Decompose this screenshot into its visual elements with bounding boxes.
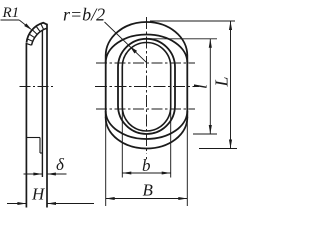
B arrow right-pointing <box>178 197 187 200</box>
dimension delta <box>24 155 67 176</box>
H arrow left-pointing <box>47 202 56 205</box>
R1 leader arrowhead <box>24 23 32 30</box>
dimension L <box>150 21 237 149</box>
right view: front view of oval washer <box>106 22 188 149</box>
l top extension line <box>148 38 217 40</box>
left view top rim band outer arc R1 <box>27 23 48 43</box>
r=b/2 arrowhead on hole arc <box>130 46 137 53</box>
centerlines of right view <box>95 17 199 159</box>
outline right side line <box>186 56 188 119</box>
B left extension line <box>105 117 107 206</box>
B right extension line <box>186 117 188 206</box>
outline left side line <box>105 56 107 119</box>
b dimension line <box>122 172 170 174</box>
dimension l (inner) <box>148 39 217 134</box>
svg-text:B: B <box>143 181 154 200</box>
H dimension line <box>7 203 94 205</box>
hole edge oval, concave face <box>118 39 175 134</box>
dimension B <box>106 117 188 206</box>
top arc centers line <box>96 62 195 64</box>
delta arrow right-pointing <box>33 172 42 175</box>
delta dimension line left part <box>24 173 43 175</box>
svg-text:r=b/2: r=b/2 <box>63 4 105 24</box>
R1 leader line <box>1 20 32 29</box>
left view horizontal centerline <box>20 86 55 88</box>
b left extension line <box>121 108 123 178</box>
vertical centerline end dot <box>146 157 148 159</box>
left view inner (concave) surface line <box>41 30 43 177</box>
left view hole far edge step line <box>26 137 40 139</box>
hole edge oval, convex face <box>122 43 170 132</box>
L dimension line <box>230 21 232 149</box>
l bottom extension line <box>193 133 217 135</box>
B dimension line <box>106 198 188 200</box>
middle horizontal centerline <box>95 86 199 88</box>
l dimension line <box>209 39 211 134</box>
label r=b/2 with leader <box>63 4 146 62</box>
L top extension line <box>150 20 235 22</box>
hatching of section band <box>28 24 44 41</box>
l arrow up <box>209 39 212 48</box>
bottom arc centers line <box>96 108 195 110</box>
L arrow up <box>229 21 232 30</box>
svg-text:l: l <box>191 84 211 89</box>
r=b/2 leader diagonal to arc center <box>105 22 147 62</box>
svg-text:L: L <box>212 76 232 87</box>
b arrow left-pointing <box>122 171 131 174</box>
dimension b <box>122 108 170 178</box>
delta dimension line right part <box>47 173 67 175</box>
outer edge top arc (convex face) <box>106 22 188 56</box>
left view band bottom cap <box>26 44 31 46</box>
l arrow down <box>209 125 212 134</box>
svg-text:H: H <box>31 185 46 204</box>
left view hole slot near line <box>39 138 41 154</box>
concave face bottom arc <box>106 111 188 139</box>
concave face top arc <box>106 35 188 63</box>
left view outer left surface line <box>25 43 27 208</box>
left view right surface line <box>46 24 48 208</box>
L bottom extension line <box>199 148 237 150</box>
svg-text:b: b <box>142 156 151 175</box>
delta arrow left-pointing <box>47 172 56 175</box>
left view top rim band inner arc <box>32 29 48 46</box>
left view hole slot bottom cap <box>40 152 42 154</box>
B arrow left-pointing <box>106 197 115 200</box>
b arrow right-pointing <box>162 171 171 174</box>
outer edge bottom arc (convex face) <box>106 118 188 149</box>
left view: side profile of dished oval washer <box>26 23 47 208</box>
b right extension line <box>170 108 172 178</box>
svg-text:δ: δ <box>56 155 65 174</box>
H arrow right-pointing <box>17 202 26 205</box>
dimension H <box>7 185 94 206</box>
svg-text:R1: R1 <box>2 5 20 21</box>
vertical centerline <box>146 17 148 154</box>
label R1 with leader <box>1 5 32 30</box>
L arrow down <box>229 140 232 149</box>
